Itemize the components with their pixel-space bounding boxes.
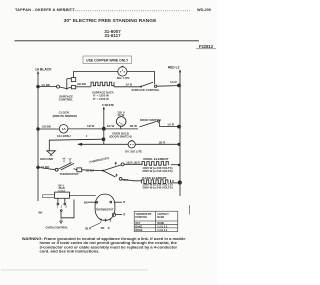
- svg-text:12A BRN: 12A BRN: [57, 134, 69, 138]
- svg-text:40 W: 40 W: [117, 113, 124, 117]
- svg-text:1B R: 1B R: [159, 140, 167, 144]
- svg-text:3B-2C: 3B-2C: [59, 188, 66, 190]
- svg-text:USE COPPER WIRE ONLY: USE COPPER WIRE ONLY: [86, 58, 129, 62]
- svg-text:1A BK: 1A BK: [41, 165, 51, 169]
- svg-text:THERMOSTAT: THERMOSTAT: [96, 207, 114, 211]
- svg-text:1B BK: 1B BK: [86, 169, 96, 173]
- svg-text:(THERMOSTAT): (THERMOSTAT): [89, 156, 110, 164]
- svg-text:2: 2: [70, 135, 72, 138]
- svg-text:1B W: 1B W: [87, 124, 94, 128]
- svg-text:1A B: 1A B: [126, 83, 134, 87]
- svg-text:F22812: F22812: [199, 44, 214, 49]
- svg-text:1B BK: 1B BK: [42, 125, 52, 129]
- svg-text:30" ELECTRIC FREE STANDING RAN: 30" ELECTRIC FREE STANDING RANGE: [64, 18, 157, 24]
- svg-text:4: 4: [86, 135, 88, 138]
- svg-text:BROIL: BROIL: [135, 229, 143, 232]
- svg-text:6 WHITE: 6 WHITE: [102, 103, 114, 107]
- svg-text:TAPPAN - OKEEFE & MERRITT: TAPPAN - OKEEFE & MERRITT: [15, 7, 75, 12]
- svg-text:1B BK: 1B BK: [77, 82, 87, 86]
- svg-text:RED L3: RED L3: [168, 66, 180, 70]
- svg-text:R: R: [108, 227, 110, 230]
- svg-text:cord. and See link instruction: cord. and See link instructions.: [40, 249, 100, 254]
- svg-text:1A R: 1A R: [167, 123, 175, 127]
- svg-text:1A BLACK: 1A BLACK: [35, 67, 52, 71]
- svg-text:BROIL ELEMENT: BROIL ELEMENT: [143, 157, 168, 161]
- svg-text:2600 W (a 240 VOLTS): 2600 W (a 240 VOLTS): [142, 185, 172, 189]
- svg-text:BAKE ELEMENT: BAKE ELEMENT: [142, 176, 167, 180]
- svg-text:OVEN CONTROL: OVEN CONTROL: [46, 226, 69, 230]
- svg-text:31-6117: 31-6117: [104, 33, 121, 38]
- svg-text:SIG. LITE: SIG. LITE: [117, 76, 130, 80]
- svg-text:1-3 & 2-3: 1-3 & 2-3: [157, 229, 168, 232]
- svg-text:1B R: 1B R: [122, 178, 128, 182]
- svg-text:2: 2: [61, 205, 63, 208]
- svg-text:1B R: 1B R: [134, 161, 140, 165]
- svg-text:2600 W (a 240 VOLTS): 2600 W (a 240 VOLTS): [142, 169, 172, 173]
- svg-text:BK: BK: [39, 211, 43, 215]
- svg-text:(MINUTE MINDER): (MINUTE MINDER): [53, 114, 77, 118]
- svg-text:GROUND: GROUND: [40, 157, 54, 161]
- svg-text:CONTROL: CONTROL: [59, 97, 74, 101]
- svg-text:1B W: 1B W: [107, 124, 115, 128]
- svg-text:1A: 1A: [62, 127, 67, 131]
- svg-text:OV. SIG LITE: OV. SIG LITE: [125, 150, 142, 154]
- svg-text:1B W: 1B W: [130, 124, 138, 128]
- svg-text:8" = 2100 W: 8" = 2100 W: [93, 97, 109, 101]
- svg-text:SURFACE CONTROL: SURFACE CONTROL: [132, 88, 160, 92]
- svg-text:1: 1: [57, 205, 59, 208]
- svg-text:1A BK: 1A BK: [41, 83, 51, 87]
- svg-text:3B R: 3B R: [85, 227, 91, 230]
- svg-text:BAKE: BAKE: [135, 225, 142, 228]
- svg-text:WD-200: WD-200: [197, 8, 211, 12]
- svg-text:R: R: [123, 200, 125, 204]
- svg-text:BK: BK: [101, 227, 105, 230]
- svg-text:(DOOR SWITCH): (DOOR SWITCH): [109, 134, 131, 138]
- svg-text:1A R: 1A R: [170, 80, 178, 84]
- svg-text:(2-3)-1: (2-3)-1: [59, 191, 67, 193]
- svg-text:THERMOSTAT: THERMOSTAT: [60, 172, 79, 176]
- svg-text:DOOR SWITCH: DOOR SWITCH: [140, 118, 161, 122]
- svg-text:MADE: MADE: [157, 216, 164, 219]
- svg-text:BK: BK: [84, 200, 88, 204]
- svg-text:1B R: 1B R: [126, 161, 132, 165]
- svg-text:1-2 & 2-3: 1-2 & 2-3: [157, 225, 168, 228]
- svg-text:R: R: [123, 213, 125, 217]
- svg-text:3: 3: [65, 205, 67, 208]
- svg-text:BK-1: BK-1: [59, 185, 65, 187]
- svg-text:POSITION: POSITION: [135, 216, 147, 219]
